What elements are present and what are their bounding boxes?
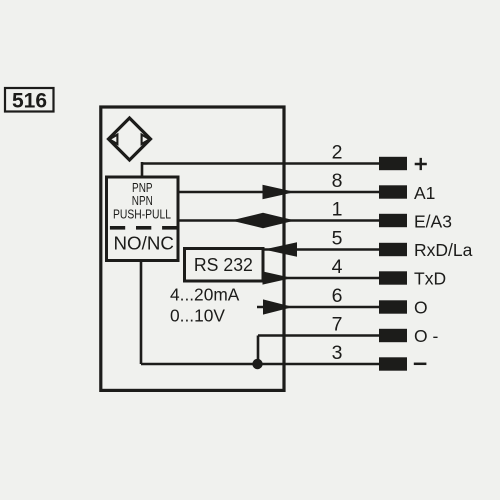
wire pin 3 line from output stage bottom <box>141 261 379 365</box>
sensor symbol B1 (diamond) <box>109 118 151 160</box>
svg-text:3: 3 <box>332 342 343 364</box>
svg-text:0...10V: 0...10V <box>170 305 225 325</box>
label box 516 <box>5 88 54 112</box>
wire from output stage top to pin 2 <box>142 162 379 179</box>
wire pin 5 line <box>264 248 379 251</box>
svg-text:4: 4 <box>332 256 343 278</box>
svg-text:A1: A1 <box>414 183 435 203</box>
svg-text:PUSH-PULL: PUSH-PULL <box>113 207 171 221</box>
svg-text:O: O <box>414 297 428 317</box>
net label + <box>415 158 427 170</box>
svg-text:2: 2 <box>332 142 343 164</box>
svg-text:O -: O - <box>414 326 438 346</box>
sensor housing rectangle <box>101 107 284 390</box>
terminal pin 6 <box>379 300 407 313</box>
wire pin 4 line <box>263 277 379 280</box>
wire pin 7 line with drop to pin 3 <box>258 336 379 365</box>
svg-text:RS 232: RS 232 <box>194 255 253 275</box>
svg-text:8: 8 <box>332 170 343 192</box>
svg-text:1: 1 <box>332 199 343 221</box>
RS 232 box <box>185 249 264 282</box>
bidirectional arrow on pin 1 <box>231 213 295 228</box>
terminal pin 2 <box>379 157 407 170</box>
svg-text:4...20mA: 4...20mA <box>170 285 240 305</box>
terminal pin 3 <box>379 357 407 370</box>
input arrow on pin 5 <box>264 242 297 257</box>
terminal pin 7 <box>379 329 407 342</box>
svg-text:6: 6 <box>332 285 343 307</box>
wire pin 6 line <box>257 306 379 309</box>
svg-text:NO/NC: NO/NC <box>114 232 174 253</box>
output arrow on pin 4 <box>263 271 293 284</box>
terminal pin 8 <box>379 185 407 198</box>
wire pin 8 line <box>178 191 379 194</box>
svg-text:TxD: TxD <box>414 268 446 288</box>
svg-text:7: 7 <box>332 314 343 336</box>
terminal pin 5 <box>379 243 407 256</box>
wire pin 1 line <box>178 219 379 222</box>
output arrow on pin 6 <box>263 299 293 314</box>
svg-text:NPN: NPN <box>132 194 153 208</box>
net label minus <box>414 363 427 366</box>
svg-text:5: 5 <box>332 228 343 250</box>
svg-text:516: 516 <box>12 89 47 112</box>
output stage box PNP/NPN/PUSH-PULL NO/NC <box>107 177 179 261</box>
terminal pin 1 <box>379 214 407 227</box>
terminal pin 4 <box>379 271 407 284</box>
arrow output on pin 8 <box>263 185 296 199</box>
svg-text:E/A3: E/A3 <box>414 211 452 231</box>
svg-text:RxD/La: RxD/La <box>414 240 473 260</box>
junction dot on pin 3 wire <box>252 359 262 369</box>
svg-text:PNP: PNP <box>132 181 153 195</box>
